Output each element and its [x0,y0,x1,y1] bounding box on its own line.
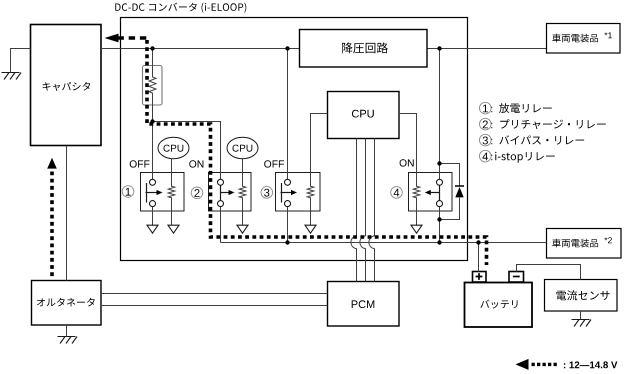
relay 4 i-stop relay box [409,173,453,212]
relay 2 switch contacts [218,179,224,185]
label PCM box text [352,300,375,308]
resistor R1 element and wire [149,49,156,122]
relay 3 switch contacts [285,179,291,185]
battery negative terminal [509,272,524,283]
legend text 3 [491,135,584,144]
circled number 2 relay label [191,187,203,199]
circled number 3 relay label [261,187,273,199]
ground at current sensor [572,320,592,327]
vehicle electrical loads 2 box 車両電装品*2 [547,229,622,259]
junction node relay4 diode top [437,161,441,165]
legend text 4 [491,155,492,161]
label 降圧回路 [342,42,388,53]
wire relay3 switch bottom to bus [287,207,289,243]
legend text 1 [491,103,551,113]
arrow dashed into capacitor [105,34,119,43]
vehicle electrical loads 1 box 車両電装品*1 [547,24,621,54]
junction node relay4 on bus [437,240,441,244]
label 電流センサ [556,290,609,300]
battery minus symbol [513,276,520,278]
relay 3 bypass relay box [276,173,321,212]
junction node relay4 on main rail [437,46,441,50]
wire relay1 coil from CPU ellipse [168,158,175,225]
label バッテリ [480,300,517,309]
legend circled number 3 [480,134,492,146]
resistor R1 precharge resistor outline [143,66,163,106]
relay 4 switch contacts [437,179,443,185]
ground at alternator [58,337,78,344]
wire relay2 switch to bus [220,207,222,243]
wire resistor tap to relay1 and relay2 switch [153,122,221,180]
label 車両電装品*2 [552,237,612,247]
wire alternator to ground [66,325,68,337]
battery plus symbol [476,273,483,280]
relay 1 actuation arrow [146,192,157,194]
wire diode branch across relay4 switch [440,164,460,220]
wire relay4 switch bottom to bus [439,207,441,243]
wire main rail step-down box to vehicle loads 1 [427,48,547,50]
legend circled number 1 [480,102,492,114]
wire main rail capacitor to step-down box [101,48,300,50]
diode D1 cathode bar [455,185,464,187]
diode D1 [455,187,463,197]
capacitor キャパシタ box [31,25,102,146]
label オルタネータ [37,298,95,307]
label 車両電装品*1 [552,32,612,42]
relay 3 actuation arrow [281,192,292,194]
label CPU box text [352,110,374,118]
wire relay3 switch top to main rail [287,49,289,180]
circled number 1 relay label [122,186,134,198]
relay 1 discharge relay box [141,173,185,212]
wire CPU to relay3 coil [307,114,327,226]
dashed 12-14.8V path capacitor horizontal segment [118,36,149,40]
label ON relay2 text [189,160,203,167]
ground arrow relay1 switch [147,225,158,233]
junction node battery tap on bus [476,240,480,244]
wire CPU to PCM signal 1 with hop over bus [351,139,357,282]
arrow dashed into capacitor bottom from alternator [47,158,57,169]
wire relay1 switch to ground [152,207,154,226]
relay 1 switch contacts [150,179,156,185]
dashed 12-14.8V path capacitor to bus to vehicle loads 2 [147,40,487,265]
label CPU ellipse1 text [164,145,184,152]
wire solid 12V bus relay2 to vehicle loads 2 [221,242,547,244]
junction node resistor tap on main rail [150,46,154,50]
DC-DC converter enclosure box [121,18,468,261]
wire bus to battery positive [478,243,480,272]
legend text 4 i-stop リレー [495,152,555,163]
CPU box U1 [328,92,400,139]
battery バッテリ box [465,283,533,328]
wire current sensor to ground [580,311,582,320]
dashed 12-14.8V path alternator to capacitor [50,172,54,279]
wire capacitor left to ground [11,49,31,73]
junction node relay3 on main rail [285,46,289,50]
label OFF relay1 text [130,160,150,167]
ground at capacitor [2,73,22,80]
ground arrow relay2 coil [237,225,248,233]
ground arrow relay1 coil [168,225,179,233]
step-down circuit 降圧回路 box [300,30,428,68]
alternator オルタネータ box [32,281,102,326]
CPU ellipse driving relay 1 [158,137,189,158]
label OFF relay3 text [264,160,284,167]
wire alternator to PCM lower [101,305,328,307]
PCM box [328,282,400,327]
ground arrow relay3 coil [305,225,316,233]
wire battery negative to current sensor [517,265,581,280]
label ON relay4 text [400,159,414,166]
circled number 4 relay label [391,187,403,199]
wire CPU to relay4 coil [399,114,420,226]
legend circled number 2 [480,118,492,130]
battery positive terminal [473,272,487,283]
legend dashed arrow 12-14.8V [516,359,529,370]
legend text 2 [491,119,605,129]
wire CPU to PCM signal 3 with hop over bus [369,139,375,282]
legend text 12-14.8 V [564,361,618,368]
title label DC-DC コンバータ (i-ELOOP) [115,3,246,13]
wire capacitor bottom to alternator [66,146,68,281]
wire CPU to PCM signal 2 with hop over bus [360,139,366,282]
label CPU ellipse2 text [233,145,253,152]
label キャパシタ [43,82,91,91]
ground arrow relay4 coil [411,225,422,233]
wire alternator to PCM upper [101,293,328,295]
wire relay4 switch top to main rail [439,49,441,180]
junction node relay4 diode bottom [437,217,441,221]
junction node below resistor [150,119,154,123]
junction node relay3 on bus [285,240,289,244]
relay 2 actuation arrow [221,192,229,194]
CPU ellipse driving relay 2 [227,137,258,158]
legend circled number 4 [480,150,492,162]
current sensor 電流センサ box [545,280,618,312]
relay 2 precharge relay box [209,173,252,212]
wire relay2 coil from CPU ellipse [239,158,246,225]
relay 4 actuation arrow [431,192,440,194]
